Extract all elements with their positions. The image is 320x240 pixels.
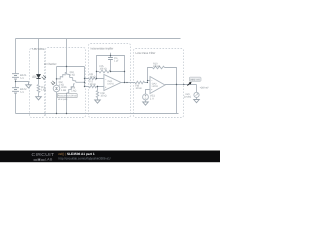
svg-text:10 kΩ: 10 kΩ: [90, 83, 96, 86]
svg-text:Low Pass Filter: Low Pass Filter: [136, 51, 156, 55]
wire: bottom -V rail: [16, 113, 179, 115]
wire: top +V rail: [16, 38, 181, 40]
svg-text:1 µF: 1 µF: [114, 60, 119, 63]
probe arrow (output callout): [187, 82, 191, 86]
ground (R9): [95, 100, 101, 103]
CircuitLab logo: [32, 152, 55, 161]
battery BAT2: [12, 82, 19, 93]
wire: OA2 output line: [165, 84, 197, 86]
resistor R10 (OA2 feedback): [153, 66, 165, 69]
svg-text:100 kΩ: 100 kΩ: [100, 68, 107, 71]
svg-text:1 kΩ: 1 kΩ: [59, 84, 64, 87]
node: junction dots: [15, 55, 185, 114]
svg-text:(volt): (volt): [184, 96, 191, 99]
wire: resistor R1 to ground: [38, 93, 40, 97]
LED LED1: [36, 75, 40, 79]
wire: battery midpoint to ground: [16, 82, 29, 84]
svg-text:1 kΩ: 1 kΩ: [41, 89, 46, 92]
voltage source VS1: [143, 94, 149, 100]
wire: bridge top horizontal: [57, 66, 85, 68]
wire: bridge right branch vertical: [84, 67, 86, 87]
wire: battery bottom drop: [15, 94, 17, 114]
svg-text:+249 mV: +249 mV: [200, 87, 209, 90]
wire: R9 to ground: [97, 87, 99, 101]
resistor R7 (plus input): [89, 85, 97, 87]
svg-text:1 V: 1 V: [150, 97, 154, 100]
footer bar: [0, 151, 220, 163]
wire: op-amp plus input line: [85, 86, 104, 88]
svg-text:5 V: 5 V: [20, 91, 24, 94]
wire: bridge left branch lower (below photodiode): [56, 92, 58, 114]
wire: VS1 to OA2 plus input: [146, 90, 151, 95]
wire: C1 stubs: [110, 53, 112, 72]
wire: bridge left branch upper: [56, 67, 58, 86]
svg-text:1 kΩ: 1 kΩ: [70, 74, 75, 77]
wire: OA2 feedback loop: [148, 68, 177, 114]
svg-text:LM741: LM741: [152, 85, 159, 88]
wire: OA1 feedback R line: [97, 71, 125, 73]
svg-text:1 kΩ: 1 kΩ: [71, 89, 76, 92]
photodiode PD1: [53, 85, 60, 92]
annotation box 4 (Low Pass Filter, dashed): [134, 49, 184, 118]
wire: LED cathode to resistor: [38, 79, 40, 85]
wire: OA1 output to OA2: [121, 82, 148, 84]
svg-text:ref() | SLE3506 A1 part 1: ref() | SLE3506 A1 part 1: [59, 152, 95, 156]
svg-text:5 V: 5 V: [20, 77, 24, 80]
svg-text:LM741: LM741: [108, 83, 115, 86]
resistor R4 (bridge lower-right arm): [68, 84, 75, 93]
output value box: [189, 77, 201, 81]
svg-text:100 kΩ: 100 kΩ: [153, 65, 160, 68]
LED1 emission arrows: [42, 75, 46, 79]
wire: VM1 bottom lead: [196, 98, 198, 100]
wire: bridge supply stub: [66, 39, 68, 73]
ground (VS1): [143, 102, 149, 105]
resistor R6 (minus input): [89, 77, 97, 79]
annotation box 3 (Instrumentation Amplifier, dashed): [89, 44, 131, 118]
wire: OA2 minus input stub: [148, 81, 151, 83]
svg-text:▬▣▬LAB: ▬▣▬LAB: [34, 157, 54, 161]
wire: OA1 feedback loop: [97, 56, 125, 83]
svg-text:http://circuitlab.com/c/rfq6pd: http://circuitlab.com/c/rfq6pd/sle3506-a…: [59, 157, 111, 161]
svg-text:with air quality: with air quality: [58, 98, 68, 101]
wire: op-amp minus input line: [85, 78, 104, 80]
wire: battery top drop: [15, 39, 17, 74]
resistor R5 (OA1 feedback): [99, 70, 111, 73]
ground (VM1): [194, 100, 200, 103]
svg-text:LED1: LED1: [32, 76, 37, 79]
battery BAT1: [12, 74, 19, 82]
svg-text:10 kΩ: 10 kΩ: [136, 87, 142, 90]
svg-text:10 kΩ: 10 kΩ: [90, 75, 96, 78]
svg-text:Photocurrent of LDR will: Photocurrent of LDR will: [58, 95, 77, 98]
wire: bridge right vertex to right branch: [76, 81, 85, 83]
wire: VM1 top lead: [196, 85, 198, 93]
wire: bridge bottom vertex drop: [66, 93, 68, 114]
op-amp OA1: [104, 75, 121, 91]
annotation box 1 (LED driver block, dashed): [30, 49, 45, 118]
resistor R2 (bridge upper-left arm): [57, 73, 67, 80]
resistor R9 (plus input to ground): [96, 91, 98, 98]
wire: VS1 to ground: [145, 100, 147, 102]
svg-text:249.3: 249.3: [190, 78, 196, 81]
capacitor C1: [108, 58, 113, 60]
svg-text:Instrumentation Amplifier: Instrumentation Amplifier: [91, 47, 114, 51]
PD1 incident light arrows: [51, 81, 55, 85]
ground (LED resistor): [36, 97, 42, 100]
svg-text:mV: mV: [196, 78, 200, 81]
svg-text:LED Driver: LED Driver: [33, 47, 45, 51]
annotation box 2 (Air Chamber, dashed): [46, 48, 86, 118]
svg-text:1 kΩ: 1 kΩ: [61, 89, 66, 92]
svg-text:10 kΩ: 10 kΩ: [101, 95, 107, 98]
op-amp OA2: [150, 77, 165, 94]
resistor R8 (interstage): [135, 81, 145, 84]
wire: LED supply stub: [38, 39, 40, 75]
ground (battery midpoint): [26, 83, 32, 88]
note annotation (photocurrent text): [57, 94, 77, 98]
voltmeter VM1: [194, 92, 199, 97]
resistor R3 (bridge upper-right arm): [67, 73, 76, 83]
svg-text:Air Chamber: Air Chamber: [44, 62, 57, 66]
resistor R1 (LED series): [37, 85, 40, 93]
